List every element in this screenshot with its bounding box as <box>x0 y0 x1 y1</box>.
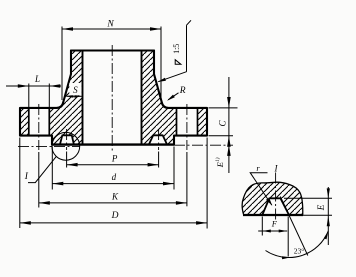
bolt hole centerline right / K extension <box>186 104 188 150</box>
label S halo <box>69 83 81 95</box>
groove centerline left / P extension <box>66 129 68 150</box>
detail blob outline <box>242 182 303 215</box>
left outer profile: hub taper and flange <box>20 51 71 145</box>
r leader shelf and arrow <box>250 173 272 205</box>
detail seating surface line <box>243 214 303 216</box>
svg-text:K: K <box>111 191 119 201</box>
bore left wall <box>82 51 84 145</box>
C extension lines <box>209 108 238 136</box>
dimension S line <box>66 95 81 97</box>
flange left section (hatched) <box>20 51 83 145</box>
dimension C/E vertical line <box>228 77 230 173</box>
bore right wall <box>141 51 143 145</box>
detail centerline I <box>275 173 277 221</box>
svg-text:23°: 23° <box>294 247 305 256</box>
svg-text:N: N <box>106 19 114 29</box>
detail circle I <box>52 132 80 160</box>
bolt hole centerline left / K extension <box>38 104 40 150</box>
svg-text:E: E <box>316 204 326 211</box>
svg-text:1:5: 1:5 <box>172 44 181 54</box>
dimension L extension lines <box>29 84 50 109</box>
svg-text:F: F <box>271 219 278 229</box>
dimension P line <box>67 164 159 166</box>
gasket plane centerline right <box>174 144 233 146</box>
flange axis centerline <box>111 45 113 153</box>
right outer profile: hub taper and flange <box>154 51 207 145</box>
taper symbol triangle <box>175 60 181 65</box>
dimension L line <box>6 85 61 87</box>
svg-text:P: P <box>111 154 118 164</box>
tongue groove left <box>60 135 74 144</box>
flange right section (hatched) <box>142 51 208 145</box>
R leader with arrow <box>168 93 178 100</box>
dimension N line <box>62 28 161 30</box>
gasket plane centerline left <box>18 145 80 147</box>
svg-text:S: S <box>73 85 78 95</box>
hub top face <box>71 49 154 51</box>
svg-text:C: C <box>218 120 228 127</box>
dimension K line <box>39 202 187 204</box>
groove centerline right / P extension <box>158 129 160 150</box>
dimension d extension lines <box>52 147 174 190</box>
dimension E line <box>327 187 329 245</box>
svg-text:L: L <box>34 74 40 84</box>
dimension D line <box>20 222 207 224</box>
svg-text:R: R <box>179 86 186 96</box>
detail groove notch <box>262 198 289 215</box>
detail E extension lines <box>284 198 332 215</box>
dimension d line <box>52 183 174 185</box>
gasket face bottom line <box>52 143 174 145</box>
leader of detail label I <box>28 156 57 182</box>
svg-text:d: d <box>112 172 117 182</box>
taper 1:5 reference line <box>187 20 192 71</box>
bolt hole left walls <box>29 108 50 136</box>
svg-text:D: D <box>111 211 119 221</box>
dimension D extension lines <box>20 138 207 229</box>
taper leader with arrow <box>158 72 186 82</box>
dimension N extension lines <box>62 27 161 105</box>
23 degree arc with arrows <box>266 231 329 258</box>
dimension F line <box>258 230 287 232</box>
bolt hole right walls <box>177 108 198 136</box>
detail view blob (hatched) <box>242 182 303 215</box>
23 degree slant line <box>280 197 308 256</box>
tongue groove right <box>149 135 167 144</box>
dimension F extension lines <box>262 217 288 257</box>
